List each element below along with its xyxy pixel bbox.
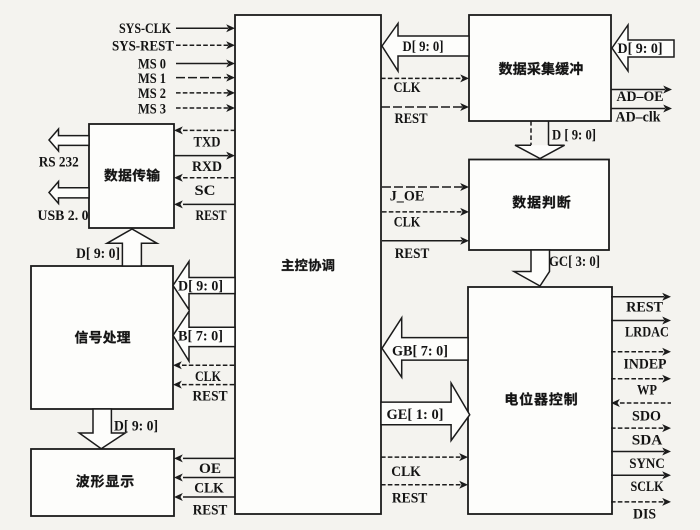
svg-text:CLK: CLK bbox=[394, 215, 421, 231]
wire SYS-CLK bbox=[176, 24, 235, 32]
svg-text:REST: REST bbox=[395, 111, 428, 127]
svg-text:REST: REST bbox=[193, 389, 229, 405]
svg-text:CLK: CLK bbox=[195, 369, 221, 385]
wire REST U4 bbox=[174, 493, 235, 501]
svg-text:CLK: CLK bbox=[194, 481, 224, 497]
wire MS0 bbox=[176, 60, 235, 68]
svg-text:RS 232: RS 232 bbox=[39, 155, 79, 171]
svg-text:REST: REST bbox=[395, 246, 430, 262]
bus arrow RS232 bbox=[49, 129, 89, 151]
svg-text:MS 3: MS 3 bbox=[138, 102, 166, 118]
bus arrow GE[1:0] U1 to U7 bbox=[381, 383, 470, 440]
wire REST U5 bbox=[381, 103, 469, 111]
svg-text:D [ 9: 0]: D [ 9: 0] bbox=[552, 128, 596, 144]
svg-text:REST: REST bbox=[193, 503, 228, 519]
block 数据传输 U2 bbox=[89, 124, 174, 228]
svg-text:D[ 9: 0]: D[ 9: 0] bbox=[618, 41, 663, 57]
wire CLK U4 bbox=[174, 474, 235, 482]
bus arrow D[9:0] U5 to U1 bbox=[382, 24, 469, 72]
svg-text:AD–clk: AD–clk bbox=[616, 110, 661, 126]
svg-text:CLK: CLK bbox=[394, 80, 421, 96]
wire REST U2 bbox=[174, 200, 235, 208]
wire AD-OE bbox=[611, 86, 672, 94]
svg-text:LRDAC: LRDAC bbox=[625, 325, 669, 341]
wire INDEP bbox=[611, 348, 671, 356]
svg-text:B[ 7: 0]: B[ 7: 0] bbox=[178, 329, 223, 345]
wire CLK U3 bbox=[173, 361, 235, 369]
bus arrow D[9:0] U5 to U6 bbox=[515, 121, 565, 159]
bus arrow D[9:0] U3 to U4 bbox=[79, 409, 125, 449]
svg-text:GE[ 1: 0]: GE[ 1: 0] bbox=[387, 407, 444, 423]
svg-text:OE: OE bbox=[199, 461, 221, 477]
bus arrow D[9:0] input bbox=[612, 25, 674, 71]
wire MS2 bbox=[176, 89, 235, 97]
bus arrow USB bbox=[49, 182, 89, 204]
block 数据采集缓冲 U5 bbox=[469, 15, 611, 121]
svg-text:SCLK: SCLK bbox=[631, 479, 664, 495]
svg-text:TXD: TXD bbox=[194, 135, 221, 151]
wire J_OE bbox=[382, 183, 469, 191]
wire REST out bbox=[611, 293, 671, 301]
wire CLK U5 bbox=[381, 74, 469, 82]
wire SDA bbox=[611, 424, 671, 432]
wire REST U3 bbox=[173, 381, 235, 389]
wire AD-clk bbox=[611, 105, 672, 113]
wire DIS bbox=[611, 498, 671, 506]
bus arrow B[7:0] U1 to U3 bbox=[173, 311, 235, 361]
svg-text:D[ 9: 0]: D[ 9: 0] bbox=[403, 39, 444, 55]
svg-text:GC[ 3: 0]: GC[ 3: 0] bbox=[549, 254, 600, 270]
wire OE bbox=[174, 454, 235, 462]
bus arrow GB[7:0] U7 to U1 bbox=[382, 318, 468, 377]
svg-text:WP: WP bbox=[637, 383, 657, 399]
block 信号处理 U3 bbox=[31, 266, 173, 409]
block 数据判断 U6 bbox=[469, 160, 609, 251]
svg-text:DIS: DIS bbox=[633, 507, 656, 523]
svg-text:D[ 9: 0]: D[ 9: 0] bbox=[114, 419, 158, 435]
svg-text:D[ 9: 0]: D[ 9: 0] bbox=[178, 279, 223, 295]
wire CLK U7 bbox=[381, 453, 468, 461]
svg-text:SYNC: SYNC bbox=[629, 456, 665, 472]
svg-text:SDA: SDA bbox=[632, 433, 663, 449]
svg-text:REST: REST bbox=[392, 491, 428, 507]
wire TXD bbox=[174, 126, 235, 134]
wire MS3 bbox=[176, 104, 235, 112]
svg-text:REST: REST bbox=[196, 208, 227, 224]
wire SYNC bbox=[611, 448, 671, 456]
svg-text:RXD: RXD bbox=[192, 159, 222, 175]
wire LRDAC bbox=[611, 317, 671, 325]
svg-text:AD–OE: AD–OE bbox=[617, 89, 664, 105]
wire SYS-REST bbox=[176, 41, 235, 49]
block 主控协调 U1 bbox=[235, 15, 381, 514]
bus arrow D[9:0] U1 to U3 bbox=[173, 261, 235, 309]
svg-text:REST: REST bbox=[626, 300, 664, 316]
svg-text:USB 2. 0: USB 2. 0 bbox=[38, 208, 89, 224]
svg-text:SYS-CLK: SYS-CLK bbox=[119, 21, 171, 37]
bus arrow GC[3:0] U6 to U7 bbox=[514, 250, 550, 286]
wire WP bbox=[611, 375, 671, 383]
svg-text:MS 1: MS 1 bbox=[138, 71, 166, 87]
wire REST U7 bbox=[381, 481, 468, 489]
svg-text:MS 2: MS 2 bbox=[138, 86, 166, 102]
svg-text:SYS-REST: SYS-REST bbox=[112, 39, 174, 55]
svg-text:J_OE: J_OE bbox=[390, 189, 425, 205]
wire RXD bbox=[174, 152, 235, 160]
wire SDO bbox=[611, 399, 671, 407]
bus arrow D[9:0] U3 to U2 bbox=[107, 229, 157, 266]
block 电位器控制 U7 bbox=[468, 287, 612, 514]
svg-text:INDEP: INDEP bbox=[624, 357, 667, 373]
wire CLK U6 bbox=[382, 208, 469, 216]
svg-text:D[ 9: 0]: D[ 9: 0] bbox=[76, 246, 120, 262]
svg-text:SC: SC bbox=[195, 183, 216, 199]
svg-text:CLK: CLK bbox=[391, 464, 421, 480]
wire REST U6 bbox=[382, 237, 469, 245]
wire SC bbox=[174, 174, 235, 182]
svg-text:GB[ 7: 0]: GB[ 7: 0] bbox=[392, 344, 448, 360]
svg-text:SDO: SDO bbox=[632, 409, 661, 425]
wire SCLK bbox=[611, 471, 671, 479]
block 波形显示 U4 bbox=[31, 449, 174, 516]
wire MS1 bbox=[176, 74, 235, 82]
